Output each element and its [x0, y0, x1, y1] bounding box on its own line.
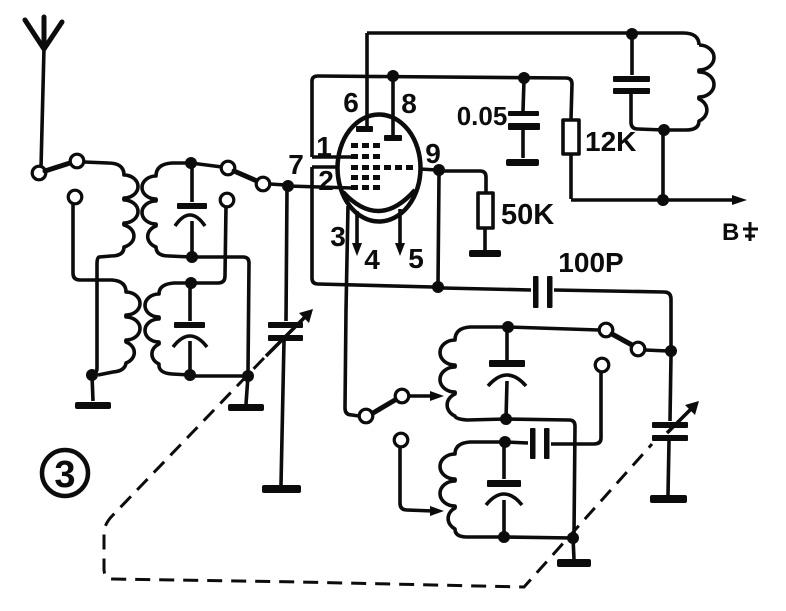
variable capacitor VC2 osc tuning — [652, 356, 699, 495]
pin 5 filament lead — [395, 209, 405, 256]
trimmer capacitor T3 — [488, 330, 526, 419]
cathode switch arm — [373, 400, 395, 413]
node J5 — [185, 277, 197, 289]
node J15 — [567, 532, 579, 544]
node J16 — [499, 436, 511, 448]
wire J17 to J15 — [504, 537, 573, 538]
tube grid dots row 3 — [351, 165, 413, 170]
node J4 — [242, 370, 254, 382]
antenna switch arm — [45, 163, 70, 171]
wire J14 right down to ground node — [506, 419, 575, 535]
osc tap contact L — [394, 433, 408, 447]
coupling capacitor 100P — [443, 276, 671, 347]
wire tank bottom to B+ line — [661, 133, 665, 199]
cathode tap arrow into L5 — [409, 391, 444, 401]
osc band switch arm — [612, 334, 632, 345]
pin 7 lead — [312, 165, 338, 169]
tube shield box bottom edge — [318, 284, 433, 287]
antenna switch contact B — [70, 154, 84, 168]
node J2 — [186, 251, 198, 263]
antenna switch contact A — [32, 166, 46, 180]
node left ground junction — [86, 369, 98, 381]
pin 9 lead — [420, 169, 437, 170]
wire pin9 node down to AGC bus — [438, 175, 439, 285]
pin 2 lead — [288, 186, 352, 188]
svg-text:6: 6 — [343, 87, 359, 118]
wire switch to grid node — [270, 184, 285, 185]
cathode switch contact H — [395, 389, 409, 403]
osc band switch contact J — [631, 342, 645, 356]
node J11 tank top — [626, 28, 638, 40]
wire J6 to J4 — [190, 374, 248, 378]
wire J1 to band switch — [191, 163, 222, 167]
trimmer capacitor T4 — [486, 445, 522, 537]
tube shield box left edge — [312, 76, 318, 284]
coil L7 tank — [664, 45, 714, 130]
svg-text:12K: 12K — [585, 126, 636, 157]
svg-text:7: 7 — [288, 149, 304, 180]
node J3 grid node — [282, 180, 294, 192]
svg-text:8: 8 — [401, 88, 417, 119]
tank capacitor — [613, 36, 664, 130]
trimmer capacitor T2 — [173, 286, 207, 375]
spare contact K — [595, 358, 609, 372]
svg-text:2: 2 — [318, 165, 334, 196]
band switch arm — [234, 171, 257, 181]
osc band switch contact I — [599, 323, 613, 337]
node pin8 on rail — [387, 70, 399, 82]
rail junction at 0.05 — [518, 72, 530, 84]
coil L3 top secondary — [142, 163, 191, 257]
wire K down to padder — [551, 372, 601, 444]
svg-text:5: 5 — [408, 243, 424, 274]
coil L4 bottom secondary — [145, 283, 191, 375]
ground left — [75, 375, 111, 409]
svg-text:0.05: 0.05 — [457, 101, 508, 131]
svg-text:50K: 50K — [501, 199, 554, 231]
svg-text:100P: 100P — [558, 247, 623, 278]
pin 6 lead — [356, 33, 373, 132]
node J17 — [498, 531, 510, 543]
ground under J4 — [228, 376, 264, 411]
coil L1 top primary with entry wire — [84, 162, 138, 375]
resistor 12K — [563, 78, 579, 199]
tube cathode inner arc — [343, 190, 415, 211]
ground under VC1 — [262, 485, 301, 493]
node J12 tank bottom — [658, 124, 670, 136]
node J13 — [502, 321, 514, 333]
antenna — [25, 17, 62, 168]
node J1 — [185, 157, 197, 169]
coil L2 bottom primary with feed wire — [73, 204, 140, 375]
coil L6 oscillator lower — [440, 442, 505, 537]
tube grid dots row 1 — [351, 143, 380, 148]
ground under J15 — [557, 538, 591, 567]
terminal contact F — [220, 193, 234, 207]
panel number circle 3 — [42, 450, 88, 496]
node J8 on bus — [432, 281, 444, 293]
pin 3 lead down to oscillator switch — [345, 206, 359, 416]
wire oscillator switch — [508, 327, 599, 330]
svg-text:4: 4 — [364, 244, 380, 275]
wire switch to J9 — [645, 350, 668, 351]
pin 8 lead — [384, 78, 402, 141]
cathode switch contact G — [359, 409, 373, 423]
svg-text:9: 9 — [425, 138, 441, 169]
svg-text:3: 3 — [330, 221, 346, 252]
pin 4 filament lead — [352, 211, 362, 256]
node J10 on B+ line — [657, 194, 669, 206]
band switch contact D — [221, 161, 235, 175]
svg-text:1: 1 — [316, 131, 332, 162]
plate line to tank — [367, 33, 699, 45]
node J14 — [500, 413, 512, 425]
terminal contact C — [68, 190, 82, 204]
tube grid dots row 4 — [351, 175, 380, 180]
B+ supply line — [571, 195, 747, 205]
osc tap arrow into L6 — [400, 447, 444, 516]
svg-text:3: 3 — [54, 454, 75, 496]
trimmer capacitor T1 — [175, 166, 207, 257]
pin 1 lead — [312, 155, 352, 159]
tube grid dots row 5 — [351, 185, 380, 190]
capacitor 0.05 to ground — [506, 80, 540, 166]
padder capacitor — [505, 428, 550, 459]
ground under VC2 — [650, 495, 687, 503]
wire F down to J5 — [191, 206, 226, 283]
coil L5 oscillator upper — [440, 327, 508, 420]
node J6 — [184, 369, 196, 381]
band switch contact E — [256, 177, 270, 191]
node J9 — [665, 345, 677, 357]
variable capacitor VC1 main tuning — [266, 189, 313, 485]
gang dashed link left — [104, 358, 652, 587]
tube V1 envelope — [338, 115, 421, 222]
label B+ — [722, 219, 758, 246]
svg-text:B: B — [722, 219, 739, 246]
wire J2 right and down to ground — [192, 257, 249, 372]
resistor 50K — [439, 171, 501, 257]
node J7 pin9 — [433, 164, 445, 176]
tube shield box top edge — [318, 76, 566, 78]
tube grid dots row 2 — [351, 154, 380, 159]
